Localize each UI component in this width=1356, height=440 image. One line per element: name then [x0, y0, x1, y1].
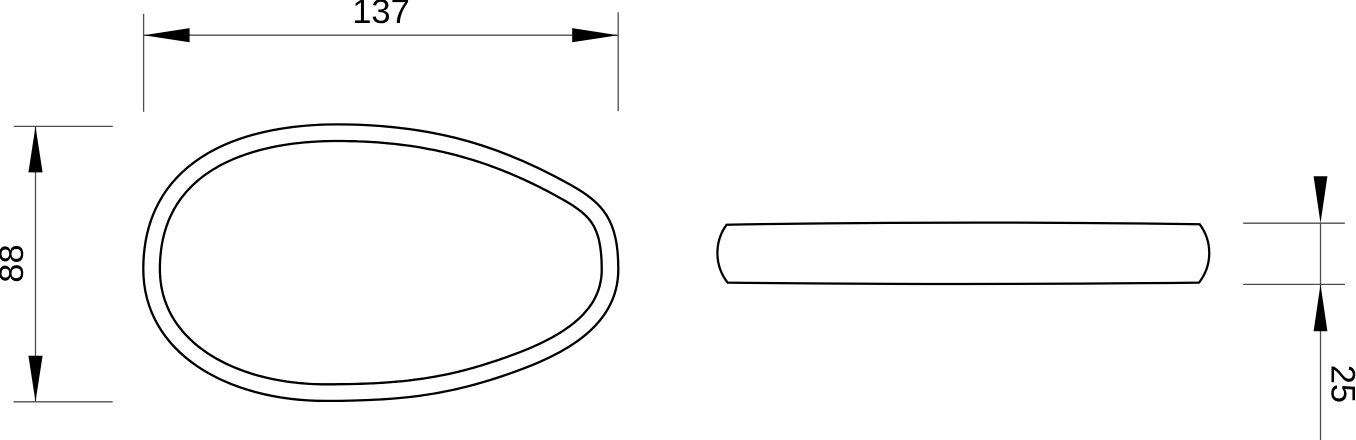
dimension 137: left extension line [143, 14, 145, 112]
dimension 88: bottom arrowhead [28, 356, 42, 402]
dimension 137: right arrowhead [572, 28, 618, 42]
dimension 25: bottom extension line [1243, 283, 1345, 285]
dimension 25: dimension/leader line [1320, 223, 1322, 440]
dimension 137: right extension line [617, 12, 619, 111]
dimension 137: dimension line [144, 34, 619, 36]
svg-text:137: 137 [352, 0, 410, 31]
top view: outer contour of oval ring [143, 124, 618, 401]
top view: inner contour of oval ring [160, 141, 602, 384]
dimension 88: bottom extension line [14, 401, 113, 403]
dimension 25: bottom arrowhead (outside, pointing up) [1314, 284, 1328, 331]
dimension 88: top extension line [14, 125, 113, 127]
dimension 88: top arrowhead [28, 126, 42, 172]
dimension 137: left arrowhead [144, 28, 190, 42]
dimension 88: dimension line [35, 126, 37, 401]
side view: slab outline [717, 223, 1209, 284]
svg-text:25: 25 [1324, 365, 1356, 403]
dimension 25: top extension line [1243, 222, 1345, 224]
dimension 25: top arrowhead (outside, pointing down) [1314, 176, 1328, 223]
svg-text:88: 88 [0, 244, 31, 282]
